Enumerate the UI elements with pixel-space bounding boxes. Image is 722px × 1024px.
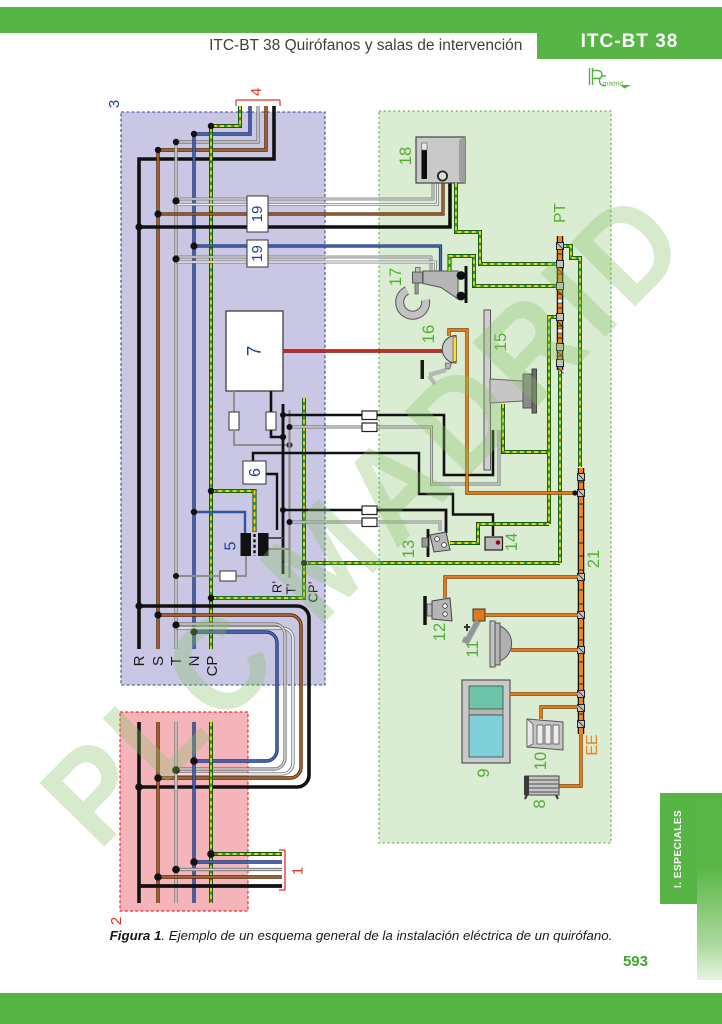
bus T' (gray)	[288, 410, 290, 578]
socket pair B wires	[283, 509, 362, 512]
bus N (blue)	[194, 106, 250, 649]
EE branch	[559, 734, 581, 786]
control box 6	[253, 453, 493, 536]
ground frame 15	[450, 404, 549, 543]
bus segment ticks on 21 and PT	[557, 254, 584, 714]
svg-text:21: 21	[585, 550, 603, 568]
bus R' (black)	[282, 404, 285, 574]
fuse black from 7	[270, 391, 273, 412]
side tab I. ESPECIALES	[660, 793, 697, 904]
device 13	[427, 529, 430, 557]
fuse gray from 7	[233, 391, 235, 412]
cable group 1 exit	[211, 852, 282, 856]
operating table 15	[484, 310, 491, 470]
svg-text:12: 12	[431, 623, 449, 641]
svg-text:19: 19	[249, 245, 266, 262]
socket pair A wires	[283, 414, 362, 417]
device 10	[527, 719, 563, 750]
device 11	[473, 609, 485, 621]
svg-text:10: 10	[532, 752, 550, 770]
svg-text:2: 2	[108, 917, 125, 925]
watermark PLC MADRID	[12, 177, 700, 873]
svg-text:9: 9	[475, 768, 493, 777]
ground wire 17 to PT	[450, 256, 558, 286]
transformer secondary links	[269, 537, 284, 539]
exit taps to pink zone (cable drop bundle)	[139, 606, 309, 787]
svg-text:7: 7	[245, 346, 266, 357]
figure caption	[0, 928, 722, 943]
bottom green bar	[0, 993, 722, 1024]
cable group 4 bracket	[236, 100, 280, 106]
device 12	[423, 596, 427, 625]
cable label 19 box 1	[247, 196, 268, 232]
svg-text:11: 11	[464, 640, 482, 657]
page number	[558, 953, 648, 970]
wire red 7 to 16	[283, 349, 443, 353]
orange wire 12	[445, 577, 578, 598]
bus S (brown)	[158, 106, 266, 649]
feed CP to transformer	[211, 491, 255, 532]
bracket 1	[279, 850, 285, 890]
device 9 (cabinet)	[462, 680, 510, 763]
PT link down to bus 21	[562, 246, 580, 467]
orange wire 9 to bus 21	[510, 692, 578, 695]
zone box 2 (supply, pink)	[120, 712, 248, 911]
orange wire 10 to bus 21	[541, 707, 578, 719]
svg-text:19: 19	[249, 206, 266, 223]
device 18 (surgical unit)	[416, 137, 465, 183]
svg-text:4: 4	[248, 88, 265, 96]
svg-text:6: 6	[247, 468, 264, 477]
PT left branch down	[549, 317, 558, 524]
svg-text:1: 1	[290, 867, 307, 875]
device 17 (x-ray C-arm)	[400, 291, 426, 316]
bus CP' (green/yellow)	[211, 398, 304, 598]
device 14	[485, 537, 503, 550]
lamp 16	[442, 336, 456, 364]
svg-text:18: 18	[397, 147, 415, 165]
feed N to transformer	[194, 512, 245, 533]
junction dots top bends	[208, 123, 214, 129]
PT busbar	[557, 236, 564, 370]
svg-text:17: 17	[387, 268, 405, 286]
transformer output fuse	[236, 556, 246, 576]
isolation transformer 5	[241, 533, 252, 556]
ground wire 18 to PT	[456, 183, 557, 264]
CP' branch to green zone	[304, 561, 560, 565]
svg-text:EE: EE	[584, 734, 601, 755]
cable 19 bundle 2 to device 17	[194, 246, 441, 271]
svg-text:14: 14	[503, 533, 521, 551]
bus CP (green/yellow)	[211, 106, 240, 649]
pink zone buses	[137, 722, 141, 903]
svg-text:3: 3	[106, 100, 123, 108]
header green box ITC-BT 38	[537, 7, 722, 59]
device 8 (heater)	[525, 776, 559, 795]
cable 19 bundle 1 to device 18	[176, 183, 433, 199]
zone box quirofano (green)	[379, 111, 611, 843]
PT bottom continuation	[558, 370, 562, 563]
bus R (black)	[139, 106, 274, 649]
PT connectors	[557, 243, 564, 367]
svg-text:8: 8	[531, 799, 549, 808]
cable label 19 box 2	[247, 240, 268, 267]
orange wires 11	[485, 613, 578, 616]
header green strip	[0, 7, 722, 33]
zone box 3 (aislamiento panel, lavender)	[121, 112, 325, 685]
orange wire 16 to bus 21	[449, 330, 578, 493]
bus T (gray)	[176, 106, 258, 649]
monitor device 7 box	[226, 311, 283, 391]
bus 21	[578, 468, 585, 734]
